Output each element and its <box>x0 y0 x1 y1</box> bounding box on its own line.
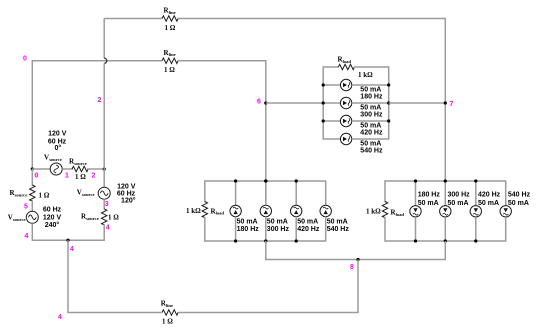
junction node 8 <box>356 258 359 261</box>
junction top-right right rail branch 1 <box>387 83 390 86</box>
junction middle top rail branch 3 <box>295 179 298 182</box>
wire left rail to R_source3 <box>31 169 33 186</box>
current source I12 (540 Hz 50 mA) <box>500 206 511 217</box>
junction bottom-right top rail branch 3 <box>474 179 477 182</box>
wire top-right branch 4 right <box>352 138 389 140</box>
current source I4 (50 mA 540 Hz) <box>340 133 351 144</box>
current source I11 (420 Hz 50 mA) <box>470 206 481 217</box>
wire node 8 horizontal <box>265 259 446 261</box>
wire node 6 to load rail <box>266 102 323 104</box>
wire phase 1 to V_source1 <box>32 168 50 170</box>
svg-text:1 Ω: 1 Ω <box>162 318 173 326</box>
wire bottom return left <box>67 312 162 314</box>
svg-text:1 kΩ: 1 kΩ <box>186 207 201 215</box>
svg-text:7: 7 <box>450 101 454 108</box>
svg-text:4: 4 <box>70 246 74 253</box>
current source I5 (50 mA 180 Hz) <box>230 205 241 216</box>
current source I7 (50 mA 420 Hz) <box>291 205 302 216</box>
wire R_source3 to V_source3 <box>31 200 33 211</box>
current source I3 (50 mA 420 Hz) <box>340 115 351 126</box>
svg-text:420 Hz: 420 Hz <box>478 191 501 198</box>
svg-text:180 Hz: 180 Hz <box>360 93 383 100</box>
svg-text:300 Hz: 300 Hz <box>360 111 383 118</box>
svg-text:1 Ω: 1 Ω <box>75 173 86 181</box>
junction top-right left rail branch 4 <box>0 0 1 1</box>
svg-text:1: 1 <box>65 172 69 179</box>
resistor R_line3 <box>162 310 178 315</box>
wire top-right load left rail <box>322 66 324 139</box>
svg-text:2: 2 <box>98 97 102 104</box>
wire R_source1 to node 2 <box>87 168 104 170</box>
wire top-right branch 1 left <box>323 84 340 86</box>
svg-text:5: 5 <box>24 203 28 210</box>
wire R_source2 to bottom <box>103 224 105 240</box>
svg-text:420 Hz: 420 Hz <box>360 129 383 136</box>
svg-text:4: 4 <box>25 233 29 240</box>
svg-text:0: 0 <box>23 55 27 62</box>
wire V_source2 to R_source2 <box>103 199 105 209</box>
wire bottom return right <box>178 312 359 314</box>
svg-text:50 mA: 50 mA <box>508 200 529 207</box>
wire bottom-right branch 1 lower <box>415 217 417 241</box>
wire top-right load top branch left <box>323 66 339 68</box>
junction middle top rail branch 2 <box>264 179 267 182</box>
svg-text:120 V: 120 V <box>43 215 62 222</box>
wire bottom-right load top rail <box>385 180 506 182</box>
svg-text:4: 4 <box>58 314 62 321</box>
svg-text:50 mA: 50 mA <box>448 200 469 207</box>
wire bottom-right branch 2 upper <box>444 181 446 206</box>
wire node 8 drop <box>357 260 359 313</box>
junction node 7 top rail <box>444 179 447 182</box>
resistor R_source1 <box>72 166 88 171</box>
current source I1 (50 mA 180 Hz) <box>340 79 351 90</box>
svg-text:Rsource: Rsource <box>10 189 28 197</box>
wire bottom-right load left rail lower <box>384 217 386 242</box>
junction top-right right rail branch 3 <box>387 119 390 122</box>
resistor R_line1 <box>162 16 178 21</box>
wire R_line2 to node 6 corner <box>178 60 266 62</box>
junction node 6 <box>264 101 267 104</box>
svg-text:120 V: 120 V <box>117 184 136 191</box>
junction bottom-right top rail branch 1 <box>414 179 417 182</box>
wire node 2 to V_source2 <box>103 169 105 187</box>
svg-text:Rline: Rline <box>164 7 176 15</box>
wire bottom-right branch 2 lower <box>444 217 446 241</box>
svg-text:50 mA: 50 mA <box>418 200 439 207</box>
svg-text:180 Hz: 180 Hz <box>418 191 441 198</box>
junction top-right left rail branch 1 <box>322 83 325 86</box>
AC source V_source2 <box>98 187 110 199</box>
resistor R_load bottom-right <box>382 202 387 218</box>
wire bottom-right branch 4 lower <box>505 217 507 241</box>
wire node 4 vertical <box>67 240 69 312</box>
junction node 4 <box>66 239 69 242</box>
junction node 6 top rail <box>264 179 267 182</box>
wire top-right branch 2 left <box>323 102 340 104</box>
svg-text:Vsource: Vsource <box>8 214 26 222</box>
svg-text:300 Hz: 300 Hz <box>448 191 471 198</box>
svg-text:2: 2 <box>92 172 96 179</box>
wire top-right branch 4 left <box>323 138 340 140</box>
svg-text:300 Hz: 300 Hz <box>267 226 290 233</box>
junction top-right left rail branch 2 <box>322 101 325 104</box>
resistor R_source2 <box>102 209 107 225</box>
wire source bottom <box>32 239 105 241</box>
svg-text:420 Hz: 420 Hz <box>297 226 320 233</box>
wire middle load left rail lower <box>204 217 206 242</box>
AC source V_source1 <box>50 163 62 175</box>
junction node 0 / phase 1 <box>31 167 34 170</box>
svg-text:120 V: 120 V <box>48 131 67 138</box>
svg-text:1 kΩ: 1 kΩ <box>366 207 381 215</box>
wire middle load top rail <box>205 180 327 182</box>
wire middle branch 2 upper <box>265 181 267 205</box>
junction top-right right rail branch 2 <box>387 101 390 104</box>
svg-text:120°: 120° <box>121 196 136 204</box>
resistor R_line2 <box>162 58 178 63</box>
wire bottom-right load to node 8 <box>444 241 446 260</box>
wire middle load bottom rail <box>205 240 327 242</box>
wire bottom-right branch 1 upper <box>415 181 417 206</box>
wire middle branch 3 lower <box>295 217 297 241</box>
junction middle bottom rail branch 1 <box>234 239 237 242</box>
wire node 7 horizontal <box>389 102 446 104</box>
svg-text:1 Ω: 1 Ω <box>164 66 175 74</box>
wire hop of node 2 vertical over node 0 wire <box>104 58 107 63</box>
AC source V_source3 <box>26 211 38 223</box>
wire bottom-right load left rail upper <box>384 180 386 202</box>
svg-text:540 Hz: 540 Hz <box>508 191 531 198</box>
wire node 2 vertical upper <box>103 19 105 59</box>
resistor R_load top-right <box>338 64 354 69</box>
current source I2 (50 mA 300 Hz) <box>340 97 351 108</box>
svg-text:6: 6 <box>257 98 261 105</box>
svg-text:Rload: Rload <box>211 207 225 215</box>
svg-text:540 Hz: 540 Hz <box>360 147 383 154</box>
svg-text:60 Hz: 60 Hz <box>43 207 62 214</box>
wire bottom-right branch 3 lower <box>475 217 477 241</box>
wire bottom-right branch 3 upper <box>475 181 477 206</box>
svg-text:8: 8 <box>350 264 354 271</box>
wire V_source3 to bottom <box>31 223 33 240</box>
current source I9 (180 Hz 50 mA) <box>410 206 421 217</box>
junction bottom-right bottom rail branch 1 <box>414 239 417 242</box>
svg-text:240°: 240° <box>45 221 60 229</box>
junction top-right right rail branch 4 <box>0 0 1 1</box>
wire middle branch 3 upper <box>295 181 297 205</box>
wire middle branch 4 lower <box>325 217 327 241</box>
junction bottom-right bottom rail branch 3 <box>474 239 477 242</box>
junction middle bottom rail branch 2 <box>264 239 267 242</box>
wire top-right load right rail <box>388 66 390 139</box>
svg-text:50 mA: 50 mA <box>267 218 288 225</box>
wire node 6 vertical through middle load <box>265 181 267 205</box>
wire top-right load top branch right <box>354 66 389 68</box>
wire node 0 horizontal (left rail to R_line2) <box>32 60 162 62</box>
svg-text:3: 3 <box>105 201 109 208</box>
svg-text:1 Ω: 1 Ω <box>39 191 50 199</box>
wire bottom-right branch 4 upper <box>505 181 507 206</box>
junction node 7 bottom rail <box>444 239 447 242</box>
wire middle branch 4 upper <box>325 181 327 205</box>
svg-text:50 mA: 50 mA <box>327 218 348 225</box>
svg-text:50 mA: 50 mA <box>478 200 499 207</box>
junction node 2 vertical / phase 1 <box>103 167 106 170</box>
junction middle bottom rail branch 3 <box>295 239 298 242</box>
svg-text:1 kΩ: 1 kΩ <box>358 71 373 79</box>
wire left rail node 0 <box>31 61 33 169</box>
wire node 6 vertical upper <box>265 60 267 181</box>
svg-text:Rsource: Rsource <box>81 213 99 221</box>
wire middle load left rail upper <box>204 180 206 202</box>
svg-text:Rload: Rload <box>391 208 405 216</box>
wire node 2 vertical lower <box>103 63 105 169</box>
junction middle top rail branch 1 <box>234 179 237 182</box>
svg-text:0°: 0° <box>54 144 61 152</box>
resistor R_source3 <box>30 185 35 201</box>
wire top-right branch 1 right <box>352 84 389 86</box>
svg-text:50 mA: 50 mA <box>297 218 318 225</box>
junction top-right left rail branch 3 <box>322 119 325 122</box>
wire middle branch 1 lower <box>235 217 237 241</box>
svg-text:Vsource: Vsource <box>44 154 62 162</box>
wire top line (node 2 to R_line1) <box>104 18 162 20</box>
wire top-right branch 2 right <box>352 102 389 104</box>
wire V_source1 to R_source1 <box>62 168 73 170</box>
svg-text:Rline: Rline <box>161 300 173 308</box>
current source I8 (50 mA 540 Hz) <box>320 205 331 216</box>
svg-text:50 mA: 50 mA <box>237 218 258 225</box>
wire top-right branch 3 right <box>352 120 389 122</box>
svg-text:1 Ω: 1 Ω <box>108 213 119 221</box>
svg-text:0: 0 <box>35 172 39 179</box>
resistor R_load middle <box>202 202 207 218</box>
svg-text:1 Ω: 1 Ω <box>165 24 176 32</box>
svg-text:540 Hz: 540 Hz <box>327 226 350 233</box>
wire middle branch 2 lower <box>265 217 267 241</box>
svg-text:4: 4 <box>106 225 110 232</box>
wire node 7 vertical upper <box>444 18 446 181</box>
wire middle branch 1 upper <box>235 181 237 205</box>
current source I6 (50 mA 300 Hz) <box>260 205 271 216</box>
wire top line (R_line1 to node 7 corner) <box>178 18 445 20</box>
svg-text:Rline: Rline <box>164 49 176 57</box>
wire bottom-right load bottom rail <box>385 240 506 242</box>
svg-text:Vsource: Vsource <box>77 189 95 197</box>
svg-text:Rload: Rload <box>338 56 352 64</box>
svg-text:Rsource: Rsource <box>69 158 87 166</box>
svg-text:180 Hz: 180 Hz <box>237 226 260 233</box>
junction node 7 <box>444 101 447 104</box>
wire top-right branch 3 left <box>323 120 340 122</box>
wire middle load to node 8 <box>265 241 267 260</box>
current source I10 (300 Hz 50 mA) <box>440 206 451 217</box>
